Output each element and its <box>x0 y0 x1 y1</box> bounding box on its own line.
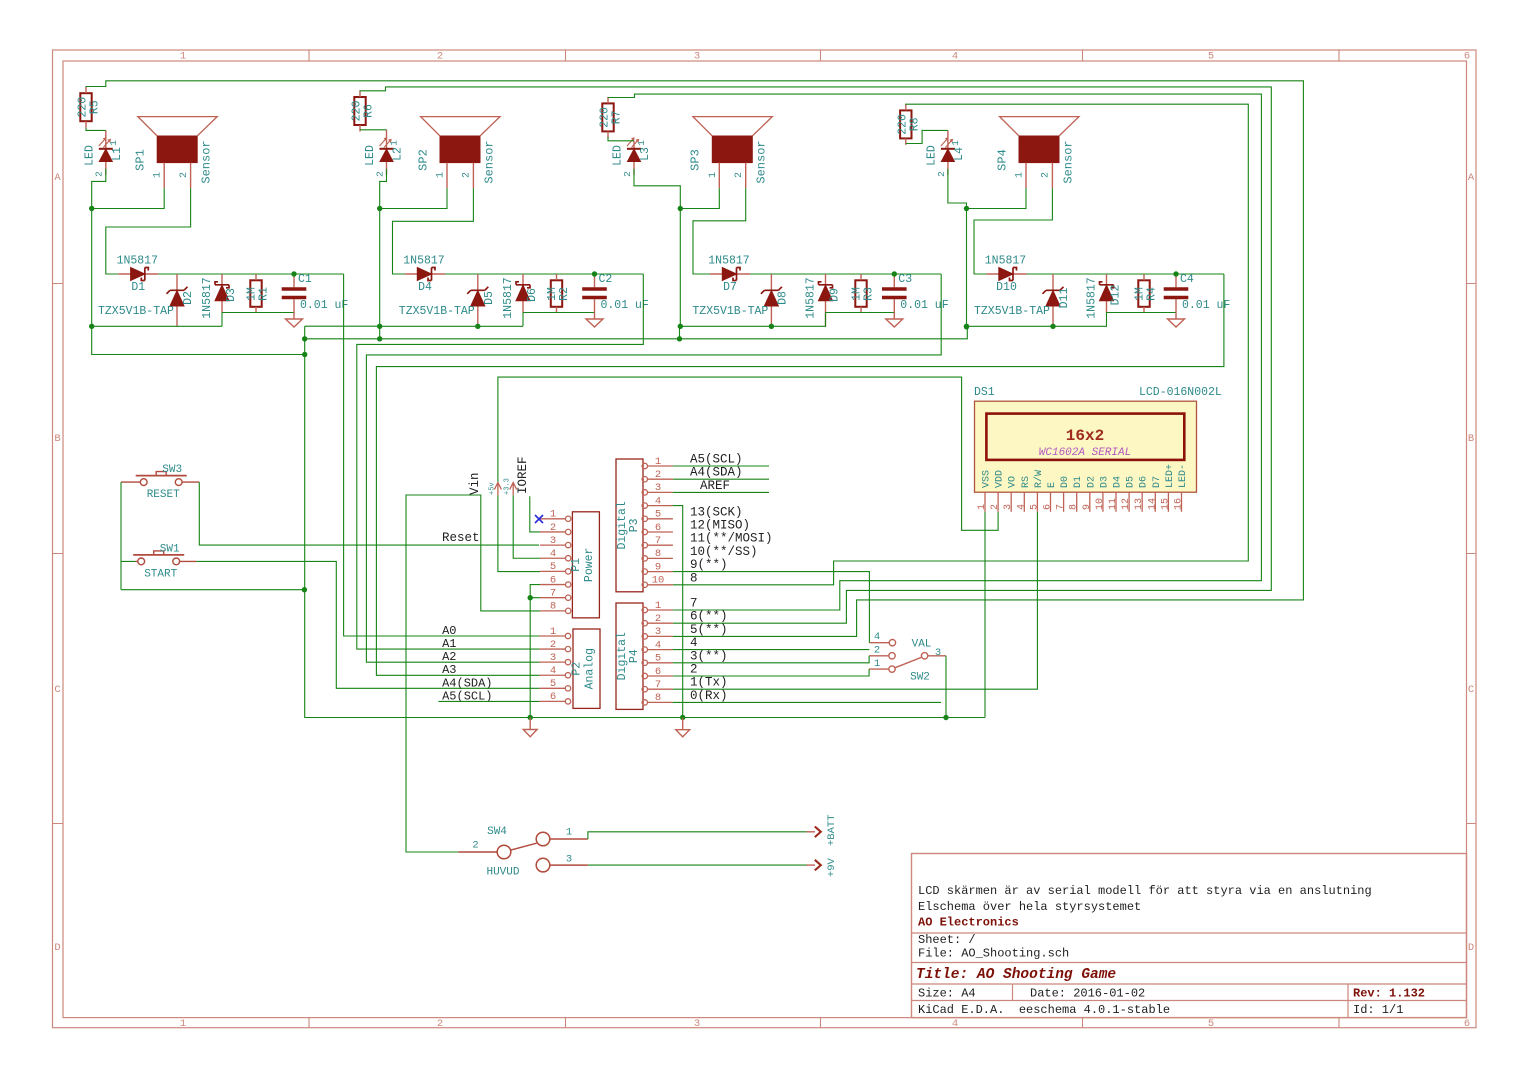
LED L1 <box>83 130 124 176</box>
junction gnd bus 1 <box>89 324 94 329</box>
svg-text:2: 2 <box>874 645 880 657</box>
junction node SP3 pin1/L3 <box>678 206 683 211</box>
wire L2 junction to SP2 pin1 <box>380 169 447 209</box>
svg-text:3: 3 <box>550 535 556 547</box>
wire bus-to-rail links <box>222 313 1107 327</box>
svg-text:4: 4 <box>655 639 661 651</box>
svg-text:P2: P2 <box>571 662 584 676</box>
speaker/sensor SP1 <box>134 117 218 189</box>
resistor R1 1M <box>246 274 271 313</box>
pushbutton SW3 RESET <box>121 464 199 501</box>
svg-text:2: 2 <box>1041 172 1052 178</box>
svg-text:LED-: LED- <box>1178 464 1189 488</box>
selector switch SW4 HUVUD <box>458 826 588 879</box>
svg-text:0.01 uF: 0.01 uF <box>300 299 348 312</box>
junction P1 pin7 gnd <box>528 595 533 600</box>
resistor R2 1M <box>546 274 571 313</box>
wire junction down to gnd bus (SP3) <box>679 209 681 327</box>
svg-text:TZX5V1B-TAP: TZX5V1B-TAP <box>692 305 768 318</box>
svg-text:2: 2 <box>936 171 947 177</box>
power flag +5V <box>488 482 501 495</box>
svg-text:8: 8 <box>1069 504 1080 510</box>
svg-text:6: 6 <box>1464 51 1470 63</box>
svg-text:SP4: SP4 <box>995 149 1009 171</box>
svg-text:R/W: R/W <box>1033 470 1045 488</box>
wire LCD VSS to gnd row <box>984 512 986 718</box>
ground below P2 <box>523 718 537 737</box>
svg-text:1N5817: 1N5817 <box>985 255 1026 268</box>
resistor R6 220 <box>351 91 376 132</box>
ground below P3/P4 <box>676 718 690 737</box>
svg-text:R2: R2 <box>558 287 571 301</box>
wire L4 junction to SP4 pin1 <box>948 169 1026 209</box>
wire node row D7 cathode to tap <box>750 273 941 275</box>
svg-text:Reset: Reset <box>442 531 480 545</box>
svg-text:1: 1 <box>550 626 556 638</box>
svg-text:1: 1 <box>550 509 556 521</box>
svg-text:6: 6 <box>655 666 661 678</box>
svg-text:5: 5 <box>1208 1018 1214 1030</box>
svg-text:6: 6 <box>655 522 661 534</box>
svg-text:LED: LED <box>925 145 938 166</box>
svg-text:KiCad E.D.A. eeschema 4.0.1-s: KiCad E.D.A. eeschema 4.0.1-stable <box>918 1003 1170 1017</box>
svg-text:LED+: LED+ <box>1165 464 1176 488</box>
capacitor C2 0.01uF <box>582 273 649 313</box>
svg-text:D2: D2 <box>182 291 195 305</box>
svg-text:6: 6 <box>550 691 556 703</box>
wire net 7 to block3 top <box>608 94 1261 610</box>
svg-text:Rev: 1.132: Rev: 1.132 <box>1353 987 1425 1001</box>
wire junction down to gnd bus (SP4) <box>966 209 968 327</box>
connector P4 Digital <box>616 600 673 710</box>
svg-text:C4: C4 <box>1180 273 1194 286</box>
svg-text:1: 1 <box>708 172 719 178</box>
svg-text:1: 1 <box>389 140 400 146</box>
svg-text:8: 8 <box>550 601 556 613</box>
svg-text:TZX5V1B-TAP: TZX5V1B-TAP <box>98 305 174 318</box>
svg-text:3: 3 <box>655 482 661 494</box>
wire R6 to L2 <box>360 129 387 131</box>
svg-text:C2: C2 <box>599 273 613 286</box>
wire 4 P4 pin4 stub <box>673 649 870 651</box>
wire A0 sensor net block1 to P2 pin1 <box>344 274 540 636</box>
diode D6 1N5817 <box>502 274 539 319</box>
svg-text:D2: D2 <box>1086 476 1097 488</box>
svg-text:R6: R6 <box>363 104 376 118</box>
svg-text:3: 3 <box>935 647 941 659</box>
svg-text:Id: 1/1: Id: 1/1 <box>1353 1003 1403 1017</box>
svg-text:1: 1 <box>655 456 661 468</box>
svg-text:D6: D6 <box>1139 476 1150 488</box>
svg-text:16: 16 <box>1174 498 1185 510</box>
svg-text:1: 1 <box>1015 172 1026 178</box>
svg-text:START: START <box>144 568 177 580</box>
wire A2 sensor net block3 to P2 pin3 <box>366 274 941 662</box>
svg-text:9(**): 9(**) <box>690 558 728 572</box>
svg-text:1: 1 <box>874 658 880 670</box>
junction node SP1 pin1/L1 <box>89 206 94 211</box>
svg-text:6: 6 <box>1043 504 1054 510</box>
wire A5(SCL) stub <box>673 465 769 467</box>
svg-text:6: 6 <box>1464 1018 1470 1030</box>
wire gnd bus row y=338.8 across blocks <box>305 326 968 339</box>
svg-text:1: 1 <box>636 140 647 146</box>
wire LCD VDD to +5V flag <box>498 377 998 530</box>
svg-text:R8: R8 <box>908 117 921 131</box>
svg-text:+BATT: +BATT <box>826 814 838 846</box>
svg-text:LED: LED <box>83 145 96 166</box>
svg-text:LED: LED <box>364 145 377 166</box>
svg-text:4: 4 <box>1016 504 1027 510</box>
svg-text:VO: VO <box>1008 476 1019 488</box>
svg-text:SW2: SW2 <box>910 672 930 684</box>
svg-text:D9: D9 <box>829 288 842 302</box>
svg-text:C: C <box>54 684 60 696</box>
svg-text:13(SCK): 13(SCK) <box>690 505 743 519</box>
net arrow +9V <box>807 857 838 877</box>
svg-text:IOREF: IOREF <box>516 456 530 494</box>
svg-text:3(**): 3(**) <box>690 649 728 663</box>
svg-text:E: E <box>1047 482 1058 488</box>
wire net 8 to block4 top <box>673 104 1248 585</box>
svg-text:5: 5 <box>550 678 556 690</box>
wire SW4 pin1 to +BATT <box>588 832 807 839</box>
diode D12 1N5817 <box>1086 274 1123 319</box>
svg-text:2: 2 <box>437 51 443 63</box>
svg-text:R3: R3 <box>863 287 876 301</box>
svg-text:SW3: SW3 <box>162 464 182 476</box>
zener diode D11 TZX5V1B-TAP <box>974 274 1071 326</box>
svg-text:D0: D0 <box>1060 476 1071 488</box>
svg-text:15: 15 <box>1160 498 1171 510</box>
capacitor C4 0.01uF <box>1164 273 1231 313</box>
wire bottom rail block 3 <box>826 312 895 314</box>
wire SP4 pin2 to D10 anode <box>974 188 1052 274</box>
svg-text:2: 2 <box>622 171 633 177</box>
svg-text:6(**): 6(**) <box>690 610 728 624</box>
svg-text:P4: P4 <box>628 649 641 663</box>
svg-text:1: 1 <box>436 172 447 178</box>
svg-text:SW1: SW1 <box>160 543 180 555</box>
svg-text:D10: D10 <box>996 281 1017 294</box>
wire net 5(**) to block1 top <box>86 81 1303 637</box>
svg-text:5: 5 <box>1029 504 1040 510</box>
connector P2 Analog <box>539 626 600 709</box>
svg-text:L2: L2 <box>392 147 405 161</box>
selector switch SW2 VAL <box>869 631 946 684</box>
svg-text:D5: D5 <box>483 291 496 305</box>
wire A3 sensor net block4 to P2 pin4 <box>376 274 1224 675</box>
svg-text:D1: D1 <box>1073 476 1084 488</box>
zener diode D8 TZX5V1B-TAP <box>692 274 789 326</box>
wire bottom rail block 1 <box>222 312 294 314</box>
svg-text:A1: A1 <box>442 637 456 651</box>
svg-text:D: D <box>1468 942 1474 954</box>
diode D3 1N5817 <box>201 274 238 319</box>
svg-text:Date: 2016-01-02: Date: 2016-01-02 <box>1030 987 1145 1001</box>
svg-text:L3: L3 <box>639 147 652 161</box>
junction gnd bus 4 <box>1050 324 1055 329</box>
svg-text:A3: A3 <box>442 663 456 677</box>
svg-text:Size: A4: Size: A4 <box>918 987 976 1001</box>
svg-text:3: 3 <box>1003 504 1014 510</box>
svg-text:4: 4 <box>952 1018 958 1030</box>
svg-text:8: 8 <box>655 692 661 704</box>
svg-text:1: 1 <box>977 504 988 510</box>
wire 2 P4 pin6 to SW2 pin1 <box>673 669 869 676</box>
svg-text:VAL: VAL <box>912 639 932 651</box>
wire AREF stub <box>673 491 769 493</box>
wire SW3 to Reset P1 pin3 <box>199 482 539 545</box>
title block <box>912 854 1467 1018</box>
wire SW3/SW1 left pins to gnd trunk <box>121 482 304 590</box>
wire junction down to gnd bus (SP2) <box>379 209 381 327</box>
wire A4(SDA) stub <box>673 478 769 480</box>
svg-text:D3: D3 <box>225 288 238 302</box>
diode D10 1N5817 <box>985 255 1027 295</box>
svg-text:7: 7 <box>655 679 661 691</box>
svg-text:5: 5 <box>655 509 661 521</box>
svg-text:R7: R7 <box>611 110 624 124</box>
svg-text:5: 5 <box>550 561 556 573</box>
junction node row at C3 <box>892 271 897 276</box>
svg-text:2: 2 <box>94 171 105 177</box>
svg-text:1(Tx): 1(Tx) <box>690 676 728 690</box>
svg-text:B: B <box>54 433 60 445</box>
junction gnd bus 2 <box>475 324 480 329</box>
wire L1 junction to SP1 pin1 <box>92 169 165 209</box>
svg-text:SP3: SP3 <box>689 149 703 171</box>
svg-text:A: A <box>54 172 61 184</box>
svg-text:2: 2 <box>550 639 556 651</box>
svg-text:C1: C1 <box>298 273 312 286</box>
svg-text:RESET: RESET <box>147 489 180 501</box>
svg-text:1N5817: 1N5817 <box>1086 277 1099 318</box>
wire gnd bus row block 1 <box>92 325 222 327</box>
svg-text:3: 3 <box>566 854 572 866</box>
wire IOREF to P1 pin2 <box>530 496 540 532</box>
speaker/sensor SP3 <box>689 117 773 189</box>
svg-text:0.01 uF: 0.01 uF <box>601 299 649 312</box>
svg-text:SP1: SP1 <box>134 149 148 171</box>
speaker/sensor SP2 <box>416 117 500 189</box>
wire 9(**) P3 pin9 to SW2 pin4 <box>673 572 870 643</box>
LCD module DS1 LCD-016N002L <box>974 386 1222 512</box>
wire L3 junction to SP3 pin1 <box>634 169 719 209</box>
svg-text:Analog: Analog <box>584 648 597 689</box>
wire A5(SCL) stub to P2 pin6 <box>438 700 539 702</box>
junction gnd bus 4 <box>964 324 969 329</box>
svg-text:1: 1 <box>950 140 961 146</box>
svg-text:4: 4 <box>550 548 556 560</box>
svg-text:L1: L1 <box>111 147 124 161</box>
wire GND trunk x=304.7 and row y=717.5 <box>305 326 985 717</box>
svg-text:3: 3 <box>694 51 700 63</box>
svg-text:12(MISO): 12(MISO) <box>690 519 750 533</box>
svg-text:4: 4 <box>655 495 661 507</box>
wire node row D1 cathode to tap <box>158 273 343 275</box>
svg-text:+9V: +9V <box>826 857 838 877</box>
svg-text:11(**/MOSI): 11(**/MOSI) <box>690 532 773 546</box>
svg-text:1N5817: 1N5817 <box>805 277 818 318</box>
junction node SP4 pin1/L4 <box>964 206 969 211</box>
connector P3 Digital <box>616 456 673 592</box>
svg-text:Sheet: /: Sheet: / <box>918 933 976 947</box>
svg-text:Sensor: Sensor <box>482 140 496 183</box>
svg-text:A: A <box>1468 172 1475 184</box>
svg-text:2: 2 <box>437 1018 443 1030</box>
wire net 6(**) to block2 top <box>360 87 1271 623</box>
svg-text:LCD-016N002L: LCD-016N002L <box>1139 386 1222 399</box>
wire 1(Tx) P4 pin7 to LCD R/W <box>673 512 1038 689</box>
svg-text:4: 4 <box>550 665 556 677</box>
svg-text:D12: D12 <box>1110 285 1123 306</box>
ground below C4 <box>1168 313 1185 328</box>
resistor R7 220 <box>599 97 624 138</box>
svg-text:A0: A0 <box>442 624 456 638</box>
wire block1 gnd jog to trunk <box>92 326 305 354</box>
svg-text:D11: D11 <box>1058 288 1071 309</box>
diode D1 1N5817 <box>117 255 159 295</box>
diode D4 1N5817 <box>403 255 445 295</box>
svg-text:File: AO_Shooting.sch: File: AO_Shooting.sch <box>918 947 1069 961</box>
svg-text:8: 8 <box>690 571 698 585</box>
svg-text:5(**): 5(**) <box>690 623 728 637</box>
junction node row at C4 <box>1173 271 1178 276</box>
diode D9 1N5817 <box>805 274 842 327</box>
resistor R8 220 <box>896 104 921 145</box>
svg-text:LED: LED <box>612 145 625 166</box>
svg-text:Sensor: Sensor <box>1061 140 1075 183</box>
svg-text:7: 7 <box>690 597 698 611</box>
svg-text:11: 11 <box>1108 498 1119 510</box>
svg-text:D1: D1 <box>131 281 145 294</box>
junction gnd row block2 link <box>377 336 382 341</box>
svg-text:Sensor: Sensor <box>755 140 769 183</box>
svg-text:D: D <box>54 942 60 954</box>
svg-text:5: 5 <box>1208 51 1214 63</box>
resistor R5 220 <box>77 87 102 128</box>
speaker/sensor SP4 <box>995 117 1079 189</box>
pushbutton SW1 START <box>133 543 196 580</box>
wire R8 to L4 <box>906 130 948 143</box>
resistor R4 1M <box>1134 274 1159 313</box>
junction gnd trunk/bus row <box>302 336 307 341</box>
svg-text:+5v: +5v <box>488 482 496 495</box>
svg-text:1: 1 <box>655 600 661 612</box>
svg-text:5: 5 <box>655 653 661 665</box>
zener diode D2 TZX5V1B-TAP <box>98 274 195 326</box>
junction gnd bus 3 <box>678 324 683 329</box>
wire node row D10 cathode to tap <box>1027 273 1224 275</box>
svg-text:2: 2 <box>655 469 661 481</box>
svg-text:0(Rx): 0(Rx) <box>690 689 728 703</box>
svg-text:+3.3: +3.3 <box>504 478 512 495</box>
svg-text:VSS: VSS <box>982 470 993 488</box>
svg-text:1: 1 <box>180 1018 186 1030</box>
svg-text:10(**/SS): 10(**/SS) <box>690 545 758 559</box>
wire R5 to L1 <box>86 128 106 131</box>
svg-text:3: 3 <box>655 626 661 638</box>
svg-text:13: 13 <box>1134 498 1145 510</box>
svg-text:2: 2 <box>734 172 745 178</box>
svg-text:1: 1 <box>153 172 164 178</box>
svg-text:R5: R5 <box>89 100 102 114</box>
svg-text:D6: D6 <box>526 288 539 302</box>
junction gnd trunk / switches <box>302 587 307 592</box>
svg-text:2: 2 <box>990 504 1001 510</box>
wire SW2 pin3 to gnd row <box>945 656 947 718</box>
svg-text:16x2: 16x2 <box>1066 427 1104 445</box>
wire node row D4 cathode to tap <box>445 273 643 275</box>
svg-text:1N5817: 1N5817 <box>201 277 214 318</box>
svg-text:D4: D4 <box>1113 476 1124 488</box>
wire R7 to L3 <box>608 137 634 141</box>
ground below C3 <box>886 313 903 328</box>
svg-text:10: 10 <box>1095 498 1106 510</box>
svg-text:Elschema över hela styrsysteme: Elschema över hela styrsystemet <box>918 900 1141 914</box>
wire bottom rail block 2 <box>523 312 595 314</box>
wire P1 pin6/pin7 to gnd <box>530 585 540 718</box>
connector P1 Power <box>540 509 599 618</box>
svg-text:C3: C3 <box>898 273 912 286</box>
svg-text:1: 1 <box>566 827 572 839</box>
svg-text:2: 2 <box>179 172 190 178</box>
svg-text:4: 4 <box>952 51 958 63</box>
power flag +3.3V <box>504 478 517 495</box>
junction node SP2 pin1/L2 <box>377 206 382 211</box>
wire SP1 pin2 to D1 anode <box>106 188 191 274</box>
junction gnd block4 <box>964 324 969 329</box>
svg-text:2: 2 <box>655 613 661 625</box>
svg-text:A2: A2 <box>442 650 456 664</box>
svg-text:14: 14 <box>1147 498 1158 510</box>
svg-text:A4(SDA): A4(SDA) <box>690 466 743 480</box>
svg-text:P3: P3 <box>628 518 641 532</box>
junction gnd bus 2 <box>377 324 382 329</box>
wire +3.3V to P1 pin4 <box>513 495 540 558</box>
svg-text:1: 1 <box>108 140 119 146</box>
junction gnd row block3 link <box>677 336 682 341</box>
svg-text:R1: R1 <box>258 287 271 301</box>
svg-text:2: 2 <box>690 663 698 677</box>
ground below C1 <box>286 313 303 328</box>
junction P3 gnd on gnd row <box>680 715 685 720</box>
svg-text:2: 2 <box>472 840 478 852</box>
wire +5V flag to P1 pin5 <box>498 495 540 571</box>
svg-text:D8: D8 <box>776 291 789 305</box>
wire junction down to gnd bus (SP1) <box>91 209 93 327</box>
junction SW2 gnd <box>943 715 948 720</box>
svg-text:R4: R4 <box>1146 287 1159 301</box>
svg-text:1N5817: 1N5817 <box>117 255 158 268</box>
svg-text:9: 9 <box>1082 504 1093 510</box>
wire P3 pin4 to GND <box>673 506 683 718</box>
LED L2 <box>364 130 405 177</box>
svg-text:1: 1 <box>180 51 186 63</box>
svg-text:2: 2 <box>550 522 556 534</box>
wire bottom rail block 4 <box>1107 312 1177 314</box>
svg-text:C: C <box>1468 684 1474 696</box>
svg-text:2: 2 <box>374 171 385 177</box>
wire SW4 to Vin P1 pin8 <box>406 495 540 852</box>
svg-text:VDD: VDD <box>995 470 1006 488</box>
svg-text:12: 12 <box>1121 498 1132 510</box>
resistor R3 1M <box>851 274 876 313</box>
svg-text:D4: D4 <box>418 281 432 294</box>
wire 3(**) P4 pin5 to SW2 pin2 <box>673 656 869 663</box>
junction node row at C2 <box>592 271 597 276</box>
